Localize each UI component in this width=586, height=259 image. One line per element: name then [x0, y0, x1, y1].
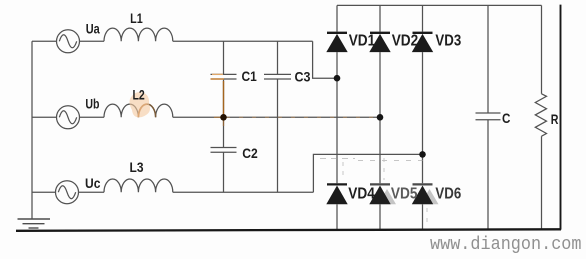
capacitor C1 plates: [211, 73, 237, 75]
bottom rail (dark): [16, 229, 561, 231]
AC source Ua: [57, 30, 80, 53]
right border (dark): [560, 5, 562, 230]
svg-text:VD3: VD3: [435, 32, 461, 49]
capacitor C1 top lead: [223, 41, 225, 74]
svg-text:R: R: [551, 111, 559, 127]
wire diode column 1: [336, 5, 338, 31]
svg-text:VD4: VD4: [348, 185, 375, 202]
wire top DC rail: [337, 4, 542, 6]
diode VD1: [326, 33, 347, 52]
capacitor C2 top lead: [223, 117, 225, 147]
svg-text:VD6: VD6: [435, 185, 461, 202]
AC source Uc: [56, 181, 79, 204]
wire Uc to L3: [79, 191, 105, 193]
capacitor C2 plates: [211, 147, 237, 149]
svg-text:VD5: VD5: [391, 185, 418, 202]
svg-text:Ub: Ub: [85, 96, 99, 112]
inductor L2: [104, 104, 173, 117]
capacitor C3 bottom lead: [277, 79, 279, 192]
wire diode column 3: [422, 5, 424, 31]
capacitor C plates: [476, 112, 501, 114]
diode VD4: [326, 184, 347, 204]
ground: [18, 219, 51, 228]
node B bridge junction dot: [377, 114, 384, 121]
svg-text:VD1: VD1: [349, 32, 376, 49]
inductor L1: [104, 28, 173, 41]
capacitor C1 bottom lead: [223, 79, 225, 117]
wire Ub to L2: [80, 116, 105, 118]
diode VD2: [369, 33, 390, 52]
capacitor C3 top lead: [277, 41, 279, 74]
wire phase A drop to bridge node: [313, 41, 337, 78]
AC source Ub: [57, 106, 80, 129]
svg-text:L2: L2: [133, 86, 145, 102]
inductor L3: [104, 179, 173, 192]
node B junction dot (C1/C2): [220, 114, 227, 121]
wire L1 to corner: [173, 40, 313, 42]
wire phase B row: [32, 116, 57, 118]
svg-text:C: C: [502, 110, 510, 126]
orange glow blob at L2: [130, 92, 151, 117]
wire phase C row: [32, 191, 56, 193]
wire L2 to node B1: [173, 116, 224, 118]
wire L3 to corner: [173, 191, 314, 193]
wire left vertical bus: [31, 41, 33, 219]
diode VD5: [369, 184, 396, 204]
svg-text:C2: C2: [242, 145, 258, 161]
svg-text:VD2: VD2: [392, 32, 419, 49]
svg-text:Uc: Uc: [85, 175, 101, 191]
node C junction dot: [419, 151, 426, 158]
wire phase A row: [32, 40, 57, 42]
scan noise dashes: [320, 158, 430, 225]
capacitor C2 bottom lead: [223, 152, 225, 192]
diode VD3: [412, 33, 433, 52]
capacitor C bottom lead: [487, 120, 489, 229]
capacitor C3 plates: [264, 73, 291, 75]
capacitor C top lead: [487, 5, 489, 113]
svg-text:C3: C3: [295, 69, 311, 85]
diode VD6: [412, 184, 439, 204]
wire phase C rise to bridge node: [313, 154, 422, 192]
orange highlight trace: [138, 74, 378, 126]
svg-text:Ua: Ua: [86, 20, 100, 36]
resistor R top lead: [541, 5, 543, 93]
svg-text:www.diangon.com: www.diangon.com: [430, 234, 582, 255]
wire Ua to L1: [80, 40, 105, 42]
wire diode column 2: [379, 5, 381, 31]
svg-text:C1: C1: [242, 68, 257, 84]
svg-text:L3: L3: [130, 159, 144, 175]
svg-text:L1: L1: [130, 10, 143, 26]
resistor R zigzag: [535, 94, 546, 136]
resistor R bottom lead: [541, 136, 543, 229]
node A junction dot: [334, 75, 341, 82]
wire node B1 to bridge node B2: [224, 116, 381, 118]
